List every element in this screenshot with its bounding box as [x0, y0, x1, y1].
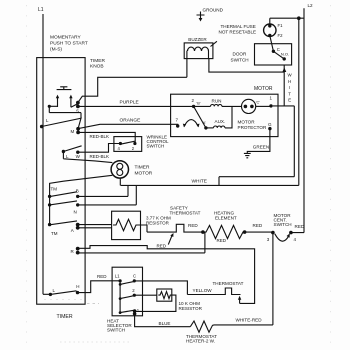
svg-text:L1: L1	[115, 274, 120, 279]
svg-text:YELLOW: YELLOW	[193, 288, 213, 293]
svg-text:THERMAL FUSE: THERMAL FUSE	[221, 24, 256, 29]
svg-text:HEATER-2 W.: HEATER-2 W.	[186, 339, 215, 344]
svg-text:L1: L1	[38, 7, 44, 13]
svg-text:'B': 'B'	[197, 102, 201, 106]
svg-text:TM: TM	[51, 231, 58, 236]
svg-text:MOMENTARY: MOMENTARY	[50, 35, 82, 41]
svg-text:B: B	[76, 189, 79, 194]
svg-text:C: C	[133, 274, 136, 279]
svg-text:T: T	[288, 91, 291, 96]
svg-text:RED: RED	[253, 223, 263, 228]
svg-text:SWITCH: SWITCH	[147, 144, 165, 149]
svg-text:N: N	[74, 210, 77, 215]
svg-text:'A': 'A'	[202, 121, 206, 125]
svg-text:RED-BLK: RED-BLK	[90, 154, 110, 159]
svg-text:THERMOSTAT: THERMOSTAT	[170, 210, 201, 215]
svg-text:SWITCH: SWITCH	[231, 58, 249, 63]
svg-text:RED: RED	[217, 238, 227, 243]
svg-text:WHITE-RED: WHITE-RED	[236, 318, 263, 323]
svg-text:PROTECTOR: PROTECTOR	[238, 125, 267, 130]
svg-text:NOT RESETABLE: NOT RESETABLE	[219, 29, 257, 34]
svg-text:SWITCH: SWITCH	[274, 222, 292, 227]
svg-text:RED-BLK: RED-BLK	[90, 134, 110, 139]
svg-text:RED: RED	[97, 274, 107, 279]
svg-text:S: S	[76, 109, 79, 114]
svg-text:C: C	[277, 47, 280, 52]
svg-text:N.O.: N.O.	[281, 52, 289, 57]
svg-text:RUN: RUN	[212, 98, 222, 103]
svg-text:'C': 'C'	[256, 100, 260, 104]
svg-text:ELEMENT: ELEMENT	[215, 216, 237, 221]
svg-text:DOOR: DOOR	[233, 52, 247, 57]
svg-text:MOTOR: MOTOR	[254, 86, 273, 92]
svg-text:RED: RED	[157, 244, 167, 249]
svg-text:PUSH TO START: PUSH TO START	[50, 41, 88, 47]
svg-text:RED: RED	[188, 223, 198, 228]
svg-text:RED: RED	[295, 224, 305, 229]
svg-text:TM: TM	[51, 187, 58, 192]
svg-text:PURPLE: PURPLE	[120, 100, 139, 106]
svg-text:F1: F1	[278, 23, 284, 28]
svg-text:TIMER: TIMER	[135, 165, 150, 171]
svg-text:BLUE: BLUE	[159, 321, 171, 326]
svg-text:ORANGE: ORANGE	[120, 118, 141, 124]
svg-text:G: G	[268, 122, 272, 127]
svg-text:SWITCH: SWITCH	[107, 328, 125, 333]
svg-text:F2: F2	[278, 33, 284, 38]
svg-text:BUZZER: BUZZER	[188, 37, 207, 42]
svg-text:GREEN: GREEN	[253, 145, 269, 150]
svg-text:H: H	[288, 79, 291, 84]
svg-text:I: I	[289, 85, 290, 90]
svg-text:MOTOR: MOTOR	[135, 171, 153, 177]
svg-text:AUX.: AUX.	[215, 119, 226, 124]
svg-text:RESISTOR: RESISTOR	[146, 220, 170, 225]
svg-text:(M-S): (M-S)	[50, 47, 62, 53]
svg-text:RESISTOR: RESISTOR	[179, 306, 203, 311]
svg-text:THERMOSTAT: THERMOSTAT	[213, 281, 244, 286]
svg-text:E: E	[288, 98, 291, 103]
svg-text:GROUND: GROUND	[203, 7, 224, 12]
svg-text:W: W	[76, 154, 81, 159]
svg-text:TIMER: TIMER	[57, 314, 73, 320]
svg-text:KNOB: KNOB	[90, 64, 104, 70]
svg-text:TIMER: TIMER	[90, 58, 105, 64]
svg-text:A: A	[71, 228, 74, 233]
svg-text:WHITE: WHITE	[192, 179, 207, 185]
svg-text:H: H	[76, 284, 79, 289]
svg-text:M: M	[71, 129, 75, 134]
svg-text:L2: L2	[308, 3, 314, 8]
svg-text:HEATING: HEATING	[214, 210, 235, 215]
svg-text:MOTOR: MOTOR	[238, 120, 256, 125]
